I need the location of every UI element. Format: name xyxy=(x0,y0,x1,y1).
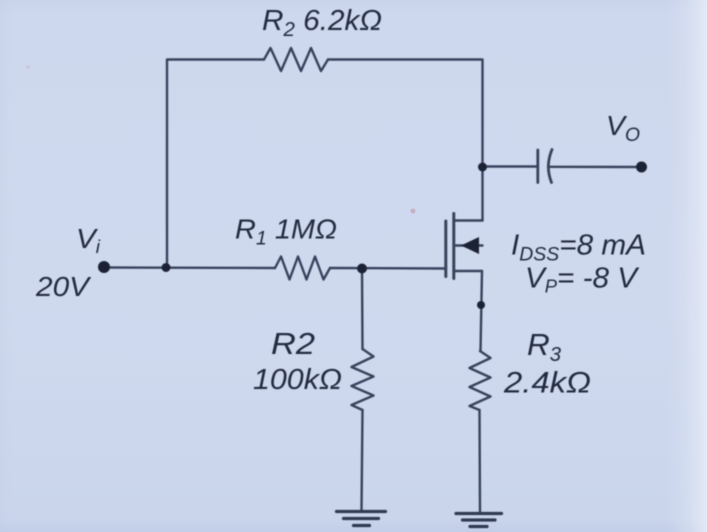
svg-text:R2: R2 xyxy=(271,326,315,361)
svg-text:20V: 20V xyxy=(35,271,92,302)
svg-text:R2 6.2kΩ: R2 6.2kΩ xyxy=(262,5,382,41)
svg-text:R1 1MΩ: R1 1MΩ xyxy=(235,214,337,250)
svg-text:100kΩ: 100kΩ xyxy=(253,364,342,396)
svg-text:VP= -8 V: VP= -8 V xyxy=(525,263,640,297)
svg-text:2.4kΩ: 2.4kΩ xyxy=(503,367,591,400)
